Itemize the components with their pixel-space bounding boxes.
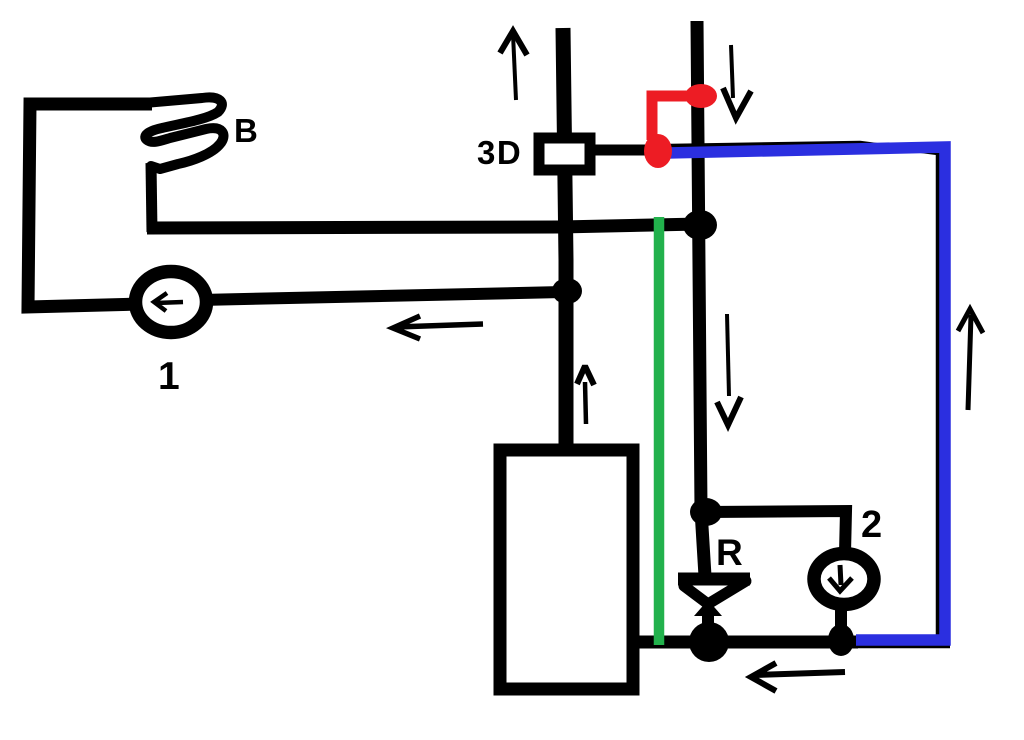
wire branch to pump 2 (705, 511, 846, 553)
red link elbow (652, 96, 699, 140)
blue return line (667, 147, 945, 640)
arrow up near pipe1 top (500, 31, 527, 55)
wire bottom return (628, 636, 858, 649)
arrow down mid right (727, 314, 729, 396)
arrow up above boiler (577, 366, 594, 385)
svg-text:R: R (716, 532, 743, 573)
wire pump2 stem (835, 607, 847, 641)
svg-text:3D: 3D (477, 134, 522, 171)
arrow left bottom (751, 663, 845, 691)
heat exchanger coil B (133, 97, 223, 169)
arrow down top right (731, 45, 733, 98)
wire left loop (28, 104, 152, 307)
pump 1 (136, 272, 207, 333)
svg-text:1: 1 (158, 355, 180, 398)
pipe 1 vertical (563, 28, 566, 444)
wire long horizontal return (147, 224, 700, 228)
valve R vee (684, 581, 746, 604)
valve R lower cone (694, 600, 722, 616)
wire valve 3D to red node (593, 145, 658, 156)
red node upper (685, 84, 717, 108)
wire thin under blue (right loop) (670, 143, 950, 646)
green bypass line (654, 217, 665, 645)
arrow left mid (393, 316, 483, 339)
red node lower (644, 134, 672, 168)
pipe 2 vertical (697, 21, 705, 576)
valve 3D body (539, 138, 590, 170)
node junction pipe1/pump line (552, 278, 582, 304)
node junction pipe2/branch (690, 498, 722, 526)
svg-text:B: B (234, 112, 258, 149)
boiler vessel (500, 450, 633, 689)
node junction valve R/bottom (689, 622, 729, 662)
pump 2 (814, 554, 874, 605)
valve R stem (702, 610, 714, 632)
wire pump1 to pipe1 node (200, 292, 563, 300)
pump 1 arrow (154, 293, 183, 311)
arrow up right blue (958, 309, 983, 410)
valve R top bar (678, 573, 750, 586)
wire coil stem (151, 163, 152, 232)
svg-text:2: 2 (861, 504, 882, 546)
node junction pump2/bottom (828, 624, 854, 656)
pump 2 arrow (829, 565, 852, 591)
node junction pipe2/long horizontal (683, 210, 717, 240)
